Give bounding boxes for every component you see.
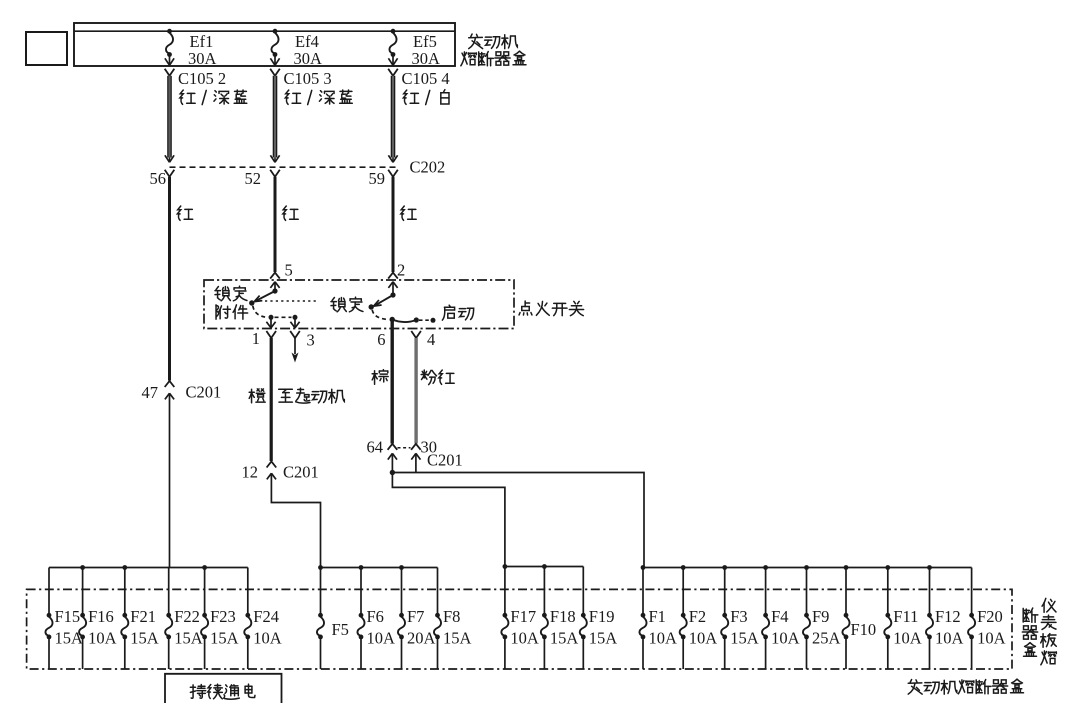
fuse F16 10A <box>79 568 117 670</box>
wire junction to F1 bus <box>392 473 644 568</box>
svg-text:10A: 10A <box>689 629 718 648</box>
connector C202 dashed separation line <box>170 166 399 168</box>
switch pivot dot (right) <box>369 304 374 309</box>
svg-text:C105 4: C105 4 <box>402 69 450 88</box>
svg-text:47: 47 <box>142 383 159 402</box>
contact dot pin6 <box>390 317 395 322</box>
fuse F18 15A <box>541 567 579 670</box>
connector C202 pin 52 socket <box>270 170 280 177</box>
svg-text:10A: 10A <box>367 629 396 648</box>
label 粉红 <box>421 370 454 385</box>
fuse F22 15A <box>165 568 203 670</box>
svg-text:15A: 15A <box>550 629 579 648</box>
label Ef4 30A <box>294 32 323 68</box>
svg-text:F2: F2 <box>689 607 706 626</box>
fuse F8 15A <box>434 568 472 670</box>
connector C201 pin 64 plug arrow <box>388 453 397 472</box>
label 附件 <box>216 305 248 319</box>
label pin 12 <box>242 463 259 482</box>
label pin 30 <box>421 438 438 457</box>
svg-text:15A: 15A <box>443 629 472 648</box>
junction node below pin 64 <box>390 470 395 475</box>
junction dot bus F17 <box>503 564 508 569</box>
junction dot bus F1 <box>641 565 646 570</box>
dashed link to start contact <box>419 319 430 321</box>
label 红 (wire 3) <box>401 206 416 220</box>
svg-text:2: 2 <box>397 261 405 280</box>
switch contact dot pin2 side <box>390 292 395 297</box>
svg-text:52: 52 <box>245 169 262 188</box>
bus wire left group (F15-F24) <box>49 567 248 569</box>
wire 红 pin59 to ignition pin2 <box>392 177 395 272</box>
dashed travel arc to contact 6 <box>372 310 387 320</box>
switch lever (锁定/附件) <box>254 291 275 302</box>
wire stub pin 3 to starter <box>292 338 299 363</box>
fuse F1 10A <box>639 568 677 670</box>
ignition switch box 点火开关 <box>204 280 514 329</box>
instrument panel / engine fuse box outline (bottom, dash-dot) <box>27 589 1012 669</box>
svg-text:12: 12 <box>242 463 259 482</box>
svg-text:F9: F9 <box>812 607 829 626</box>
fuse Ef1 30A <box>166 29 173 57</box>
connector C105 socket below Ef5 <box>388 69 398 76</box>
junction dot bus F16 <box>80 565 85 570</box>
junction dot bus F4 <box>763 565 768 570</box>
label C201 (middle) <box>283 463 319 482</box>
label wire colour 红/深蓝 <box>285 90 352 105</box>
label 发动机熔断器盒 (engine fuse box, top right) <box>461 34 526 66</box>
connector C201 pin 30 plug arrow <box>411 453 420 472</box>
junction dot bus F12 <box>927 565 932 570</box>
fuse F24 10A <box>244 568 282 670</box>
fuse Ef4 30A <box>271 29 278 57</box>
wire Ef1 to C202 (红/深蓝) <box>168 76 171 158</box>
label 红 (wire 2) <box>283 206 298 220</box>
fuse F17 10A <box>501 567 539 670</box>
junction dot bus F18 <box>542 564 547 569</box>
fuse F15 15A <box>45 568 83 670</box>
arrow into box bottom at Ef4 <box>270 55 279 66</box>
pin 1 socket <box>266 331 276 338</box>
connector C202 pin 56 socket <box>165 170 175 177</box>
svg-text:64: 64 <box>367 438 384 457</box>
svg-text:F21: F21 <box>130 607 156 626</box>
wire 红 pin56 to C201 pin47 <box>168 177 171 381</box>
unlabeled small box at top left <box>26 32 67 65</box>
svg-text:15A: 15A <box>589 629 618 648</box>
fuse F7 20A <box>398 568 436 670</box>
engine fuse box (top) outline 发动机熔断器盒 <box>74 23 455 66</box>
svg-text:10A: 10A <box>253 629 281 648</box>
label 持续通电 <box>190 684 255 699</box>
switch contact dot pin5 side <box>272 288 277 293</box>
label 仪表板熔断器盒 (vertical, right) <box>1022 598 1056 664</box>
wire C201 pin12 to F5 bus <box>271 486 320 568</box>
label 红 (wire 1) <box>177 206 192 220</box>
arrow at C202 from Ef4 <box>270 155 279 162</box>
svg-text:6: 6 <box>377 330 385 349</box>
svg-text:30A: 30A <box>412 49 441 68</box>
fuse F23 15A <box>201 568 239 670</box>
label Ef1 30A <box>188 32 217 68</box>
svg-text:F11: F11 <box>893 607 918 626</box>
switch pole arrow pin 2 <box>388 282 397 295</box>
label wire colour 红/深蓝 <box>180 90 247 105</box>
svg-text:15A: 15A <box>174 629 203 648</box>
arrow at C202 from Ef5 <box>388 155 397 162</box>
contact dot 启动 <box>431 318 436 323</box>
connector C202 pin 59 socket <box>388 170 398 177</box>
svg-text:F10: F10 <box>851 620 877 639</box>
label 启动 <box>442 305 473 320</box>
svg-text:1: 1 <box>252 329 260 348</box>
svg-text:20A: 20A <box>407 629 436 648</box>
svg-text:F1: F1 <box>649 607 666 626</box>
arrow at C202 from Ef1 <box>165 155 174 162</box>
svg-text:56: 56 <box>150 169 167 188</box>
svg-text:10A: 10A <box>88 629 117 648</box>
label 锁定 (right switch) <box>331 297 363 312</box>
dashed travel arc to contact 1 <box>253 306 267 318</box>
svg-text:F3: F3 <box>730 607 747 626</box>
svg-text:15A: 15A <box>210 629 239 648</box>
svg-text:F22: F22 <box>174 607 200 626</box>
wire Ef4 to C202 (红/深蓝) <box>273 76 276 158</box>
connector C105 socket below Ef4 <box>270 69 280 76</box>
label 点火开关 <box>519 301 584 316</box>
svg-text:15A: 15A <box>730 629 759 648</box>
junction dot bus F3 <box>722 565 727 570</box>
connector C201 pin 47 socket <box>165 381 175 387</box>
connector C201 pin 12 socket <box>267 462 277 468</box>
label C105 2 <box>178 69 226 88</box>
fuse F2 10A <box>680 568 718 670</box>
fuse F12 10A <box>926 568 964 670</box>
label C202 <box>410 158 446 177</box>
svg-text:4: 4 <box>427 330 435 349</box>
pin 4 socket <box>411 331 421 338</box>
svg-text:C105 2: C105 2 <box>178 69 226 88</box>
label 锁定 (left switch) <box>215 286 247 301</box>
fuse F6 10A <box>357 568 395 670</box>
connector C201 pin 30 socket <box>411 444 421 450</box>
bus wire F17 group <box>505 566 583 568</box>
label wire colour 红/白 <box>403 90 449 105</box>
label pin 59 <box>369 169 386 188</box>
dotted link line between switch poles <box>265 300 317 302</box>
svg-text:F20: F20 <box>977 607 1003 626</box>
bus wire F5 group <box>321 567 438 569</box>
label 棕 <box>372 370 388 385</box>
contact dot pos 3 <box>293 315 298 320</box>
fuse F4 10A <box>762 568 800 670</box>
持续通电 box (continuous power) <box>165 674 282 703</box>
contact dot pos 1 <box>269 315 274 320</box>
fuse F20 10A <box>968 568 1006 670</box>
label pin 2 <box>397 261 405 280</box>
svg-text:C201: C201 <box>283 463 319 482</box>
junction dot bus F9 <box>804 565 809 570</box>
arrow to pin 3 <box>290 319 299 328</box>
fuse F21 15A <box>121 568 159 670</box>
svg-text:F6: F6 <box>367 607 384 626</box>
connector C201 pin 12 plug arrow <box>267 473 276 486</box>
junction dot bus F5 <box>318 565 323 570</box>
junction dot bus F7 <box>399 565 404 570</box>
wire 棕 pin6 to C201 pin64 <box>391 320 394 444</box>
dashed link contact1-contact3 <box>275 316 292 318</box>
junction dot bus F11 <box>885 565 890 570</box>
svg-text:5: 5 <box>285 261 293 280</box>
pin 3 socket <box>290 331 300 338</box>
svg-text:F12: F12 <box>935 607 961 626</box>
svg-text:F18: F18 <box>550 607 576 626</box>
wire 粉红 pin4 to C201 pin30 <box>414 338 417 444</box>
svg-text:30A: 30A <box>188 49 217 68</box>
label 至起动机 <box>279 388 345 403</box>
svg-text:3: 3 <box>307 331 315 350</box>
label C105 4 <box>402 69 450 88</box>
dashed line between pin64 and pin30 sockets <box>398 447 411 449</box>
arrow into box bottom at Ef1 <box>165 55 174 66</box>
label 橙 <box>249 389 265 403</box>
connector C201 pin 47 plug arrow <box>165 393 174 405</box>
svg-text:10A: 10A <box>893 629 922 648</box>
switch pivot dot (left) <box>249 300 254 305</box>
pin 5 socket above box <box>270 273 280 279</box>
connector C201 pin 64 socket <box>388 444 398 450</box>
fuse F11 10A <box>884 568 922 670</box>
label pin 5 <box>285 261 293 280</box>
contact dot pin4 <box>414 317 419 322</box>
wire Ef5 to C202 (红/白) <box>391 76 394 158</box>
svg-text:10A: 10A <box>649 629 678 648</box>
label pin 52 <box>245 169 262 188</box>
svg-text:F16: F16 <box>88 607 114 626</box>
arrow into box bottom at Ef5 <box>388 55 397 66</box>
svg-text:F24: F24 <box>253 607 279 626</box>
junction dot bus F23 <box>202 565 207 570</box>
svg-text:25A: 25A <box>812 629 841 648</box>
label C105 3 <box>284 69 332 88</box>
svg-text:10A: 10A <box>977 629 1006 648</box>
junction dot bus F10 <box>844 565 849 570</box>
svg-text:F23: F23 <box>210 607 236 626</box>
switch pole arrow pin 5 <box>270 282 279 291</box>
bus wire right group (F1-F20) <box>643 567 972 569</box>
label Ef5 30A <box>412 32 441 68</box>
svg-text:F7: F7 <box>407 607 424 626</box>
svg-text:C105 3: C105 3 <box>284 69 332 88</box>
svg-text:15A: 15A <box>130 629 159 648</box>
junction dot bus F2 <box>681 565 686 570</box>
svg-text:F19: F19 <box>589 607 615 626</box>
svg-text:C202: C202 <box>410 158 446 177</box>
switch lever (锁定 right) <box>374 295 393 306</box>
fuse F3 15A <box>721 568 759 670</box>
svg-text:10A: 10A <box>510 629 539 648</box>
label C201 (left) <box>186 383 222 402</box>
fuse F19 15A <box>580 567 618 670</box>
label pin 56 <box>150 169 167 188</box>
junction dot bus F6 <box>359 565 364 570</box>
svg-text:C201: C201 <box>186 383 222 402</box>
svg-text:10A: 10A <box>771 629 800 648</box>
fuse F5 <box>317 568 349 670</box>
svg-text:F5: F5 <box>332 620 349 639</box>
fuse F10 <box>842 568 876 670</box>
svg-text:F17: F17 <box>510 607 536 626</box>
contact bridge arc 6-4 <box>392 320 416 323</box>
svg-text:C201: C201 <box>427 451 463 470</box>
label pin 4 <box>427 330 435 349</box>
svg-text:F4: F4 <box>771 607 788 626</box>
label pin 47 <box>142 383 159 402</box>
svg-text:59: 59 <box>369 169 386 188</box>
label pin 3 <box>307 331 315 350</box>
label 发动机熔断器盒 (bottom) <box>908 679 1023 694</box>
wire junction to F17 bus <box>392 473 505 567</box>
svg-text:F15: F15 <box>55 607 81 626</box>
svg-text:F8: F8 <box>443 607 460 626</box>
svg-text:30A: 30A <box>294 49 323 68</box>
label pin 6 <box>377 330 385 349</box>
wire C201 pin47 down to fuse F22 bus <box>169 406 171 568</box>
label pin 64 <box>367 438 384 457</box>
label pin 1 <box>252 329 260 348</box>
connector C105 socket below Ef1 <box>165 69 175 76</box>
pin 2 socket above box <box>388 273 398 279</box>
wire 红 pin52 to ignition pin5 <box>274 177 277 272</box>
fuse F9 25A <box>803 568 841 670</box>
arrow to pin 1 <box>266 319 275 328</box>
junction dot bus F21 <box>122 565 127 570</box>
label C201 (right) <box>427 451 463 470</box>
wire 橙 pin1 to C201 pin12 <box>270 338 273 461</box>
fuse Ef5 30A <box>389 29 396 57</box>
svg-text:10A: 10A <box>935 629 964 648</box>
